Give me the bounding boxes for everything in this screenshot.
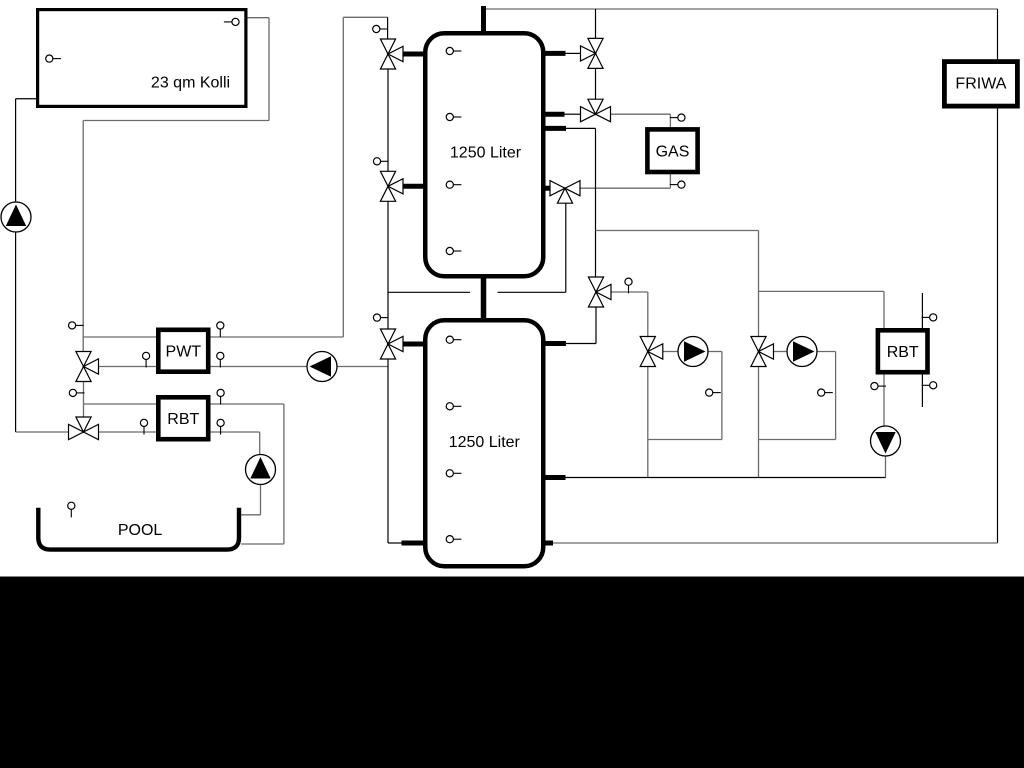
sensor RBT right secondary bottom (922, 382, 937, 389)
wire circuit2 return drop (758, 367, 760, 478)
wire collector supply left riser (15, 99, 17, 432)
label tank 1 (450, 145, 522, 162)
wire heating supply line (596, 230, 759, 232)
boiler GAS (647, 129, 697, 172)
wire transfer right segment (498, 291, 566, 293)
sensor PWT primary out (217, 322, 224, 337)
wire collector return left riser (82, 121, 84, 352)
wire RBT2 secondary pipe (921, 293, 923, 407)
wire collector return right drop (268, 18, 270, 121)
pool basin (38, 508, 239, 550)
wire V9 to circuit1 (611, 291, 648, 293)
sensor PWT secondary out (217, 352, 224, 367)
wire circuit2 valve-pump (774, 351, 788, 353)
buffer tank 1 1250 Liter (425, 33, 543, 276)
wire V7 to GAS (611, 113, 671, 115)
3-way valve tank1 left lower (380, 171, 403, 201)
sensor RBT right return (871, 383, 886, 390)
buffer tank 2 1250 Liter (425, 320, 543, 566)
sensor tank2 4 (446, 536, 461, 543)
sensor tank2 1 (446, 336, 461, 343)
wire circuit2 loop bottom (759, 439, 836, 441)
sensor pool water (68, 502, 75, 517)
port tank1 right 4 (544, 186, 551, 191)
port tank1-tank2 connection (481, 276, 487, 320)
sensor heating supply (625, 278, 632, 293)
sensor collector mid (46, 55, 61, 62)
sensor RBT pool in (140, 419, 147, 434)
wire x595 column mid (595, 128, 597, 277)
3-way valve GAS supply (581, 99, 611, 122)
sensor tank1 3 (446, 181, 461, 188)
sensor tank1 1 (446, 47, 461, 54)
heat exchanger RBT right (878, 330, 928, 372)
wire RBT to pool pump drop (259, 432, 261, 456)
wire valve V4-V5 link (83, 381, 85, 418)
wire tank2 top right port wire (566, 343, 596, 345)
svg-text:FRIWA: FRIWA (955, 76, 1006, 93)
wire tank1 port to V6 (566, 52, 581, 54)
wire tank column V3-bottom (387, 359, 389, 543)
wire V9 bottom drop (595, 307, 597, 344)
wire circuit2 pump-out (817, 351, 836, 353)
port tank2 right 2 (544, 475, 566, 480)
wire circuit2 feed drop upper (758, 231, 760, 337)
3-way valve PWT (76, 352, 99, 382)
circuit 2 pump (787, 337, 817, 367)
heat exchanger RBT pool (158, 397, 208, 439)
wire V6 top riser (595, 9, 597, 39)
sensor GAS return (670, 181, 685, 188)
wire top line to FRIWA (484, 8, 998, 10)
wire valve V4 to PWT (99, 366, 159, 368)
wire circuit1 loop bottom (648, 439, 722, 441)
sensor above valve V2 (373, 158, 388, 165)
wire circuit1 return drop (647, 367, 649, 478)
black footer band (0, 577, 1024, 768)
sensor PWT secondary in (143, 352, 150, 367)
wire PWT primary riser (342, 17, 344, 337)
wire collector return exit (246, 17, 269, 19)
3-way valve heating supply (588, 277, 611, 307)
wire tank2 bottom left (388, 542, 402, 544)
wire tank1 lower port right (566, 127, 596, 129)
sensor collector return (69, 322, 84, 329)
PWT secondary pump (307, 352, 337, 382)
sensor tank1 2 (446, 113, 461, 120)
label tank 2 (449, 434, 521, 451)
wire tank column V1-V2 (387, 69, 389, 171)
svg-text:RBT: RBT (887, 344, 919, 361)
sensor tank2 3 (446, 470, 461, 477)
port tank2 right 1 (544, 341, 566, 346)
wire FRIWA return bottom (553, 542, 998, 544)
pool pump (246, 455, 276, 485)
wire collector return horizontal (83, 120, 269, 122)
heat exchanger PWT (158, 330, 208, 372)
circuit 1 pump (678, 337, 708, 367)
wire tank1 port to V7 (565, 113, 581, 115)
sensor RBT pool top out (217, 389, 224, 404)
mixing valve circuit 1 (640, 337, 663, 367)
3-way valve tank1 left upper (380, 39, 403, 69)
wire pool return drop (283, 404, 285, 544)
wire transfer left segment (388, 291, 470, 293)
wire far-left to valve V5 (16, 431, 69, 433)
wire pool pump to pool down (260, 484, 262, 515)
wire circuit2 loop right (835, 352, 837, 440)
sensor circuit 2 return (818, 389, 833, 396)
sensor RBT pool bottom out (217, 419, 224, 434)
mixing valve circuit 2 (751, 337, 774, 367)
wire GAS return to valve V8 (580, 187, 670, 189)
wire tank2 return line (566, 477, 886, 479)
sensor collector outlet (224, 18, 239, 25)
sensor pool flow (69, 389, 84, 396)
wire FRIWA riser top (997, 9, 999, 61)
wire circuit1 pump-out (708, 351, 722, 353)
svg-text:GAS: GAS (656, 144, 690, 161)
svg-text:1250 Liter: 1250 Liter (450, 145, 522, 162)
svg-text:POOL: POOL (118, 522, 163, 539)
wire pool return into pool (241, 543, 284, 545)
wire PWT to pump P2 (209, 366, 308, 368)
port tank1 right 1 (544, 51, 566, 56)
wire RBT2 feed drop (883, 291, 885, 330)
3-way valve tank1 right top (581, 38, 604, 68)
3-way valve tank2 left (380, 329, 403, 359)
wire tank column top (387, 17, 389, 39)
wire FRIWA down to return (997, 107, 999, 543)
wire PWT primary to valve column (343, 16, 387, 18)
port tank2 right 3 (544, 541, 553, 546)
3-way valve pool RBT (69, 417, 99, 440)
port tank1 right 3 (544, 126, 566, 131)
wire RBT top pipe (84, 403, 284, 405)
wire pump P2 to tank column (337, 366, 389, 368)
svg-text:1250 Liter: 1250 Liter (449, 434, 521, 451)
3-way valve GAS return (550, 181, 580, 204)
svg-text:PWT: PWT (166, 344, 202, 361)
fresh water station FRIWA (944, 62, 1017, 107)
wire collector supply top (16, 98, 36, 100)
wire circuit1 feed drop (647, 292, 649, 337)
wire pool pump into pool (241, 514, 260, 516)
sensor above valve V1 (373, 25, 388, 32)
wire GAS supply drop (669, 114, 671, 128)
wire V8 bottom drop (565, 203, 567, 292)
wire circuit1 valve-pump (663, 351, 679, 353)
port tank1 top (481, 6, 486, 33)
solar collector 23 qm Kolli (38, 10, 246, 107)
wire pump P5 drop (885, 456, 887, 478)
port tank1 left lower (402, 184, 424, 189)
wire PWT primary top (83, 336, 343, 338)
port tank1 left upper (402, 52, 424, 57)
RBT right pump (871, 426, 901, 456)
sensor circuit 1 return (706, 389, 721, 396)
wire circuit1 loop right (721, 352, 723, 440)
port tank1 right 2 (544, 112, 565, 117)
sensor GAS supply (670, 114, 685, 121)
sensor tank2 2 (446, 403, 461, 410)
wire RBT2 to pump P5 (883, 372, 885, 427)
wire valve V5 to RBT (99, 431, 260, 433)
sensor tank1 4 (446, 247, 461, 254)
port tank2 left lower (402, 541, 425, 546)
wire GAS return riser (669, 174, 671, 188)
svg-text:RBT: RBT (167, 411, 199, 428)
solar pump (1, 202, 31, 232)
sensor above valve V3 (373, 314, 388, 321)
wire tank column V2-V3 (387, 201, 389, 329)
wire V6-V7 (595, 69, 597, 100)
sensor RBT right secondary top (922, 314, 937, 321)
wire RBT2 feed branch (759, 290, 885, 292)
svg-text:23 qm Kolli: 23 qm Kolli (151, 75, 230, 92)
port tank2 left upper (402, 342, 424, 347)
